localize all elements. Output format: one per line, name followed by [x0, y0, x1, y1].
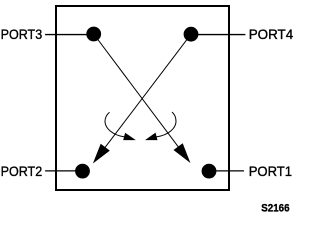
- svg-text:PORT2: PORT2: [1, 164, 43, 179]
- wire arrow PORT3 to PORT1: [94, 34, 191, 163]
- wire leader PORT1: [209, 170, 244, 172]
- curved swap arrow left: [105, 112, 136, 140]
- svg-text:PORT1: PORT1: [249, 164, 292, 179]
- node PORT4: [184, 27, 199, 42]
- node PORT1: [202, 164, 217, 179]
- svg-text:PORT3: PORT3: [1, 27, 43, 42]
- wire leader PORT4: [191, 34, 245, 36]
- wire leader PORT2: [45, 170, 82, 172]
- wire arrow PORT4 to PORT2: [93, 34, 191, 163]
- svg-text:PORT4: PORT4: [249, 27, 294, 42]
- switch box outline: [56, 6, 229, 190]
- node PORT3: [86, 27, 101, 42]
- node PORT2: [75, 164, 90, 179]
- curved swap arrow right: [145, 112, 176, 140]
- svg-text:S2166: S2166: [261, 203, 289, 215]
- wire leader PORT3: [45, 34, 94, 36]
